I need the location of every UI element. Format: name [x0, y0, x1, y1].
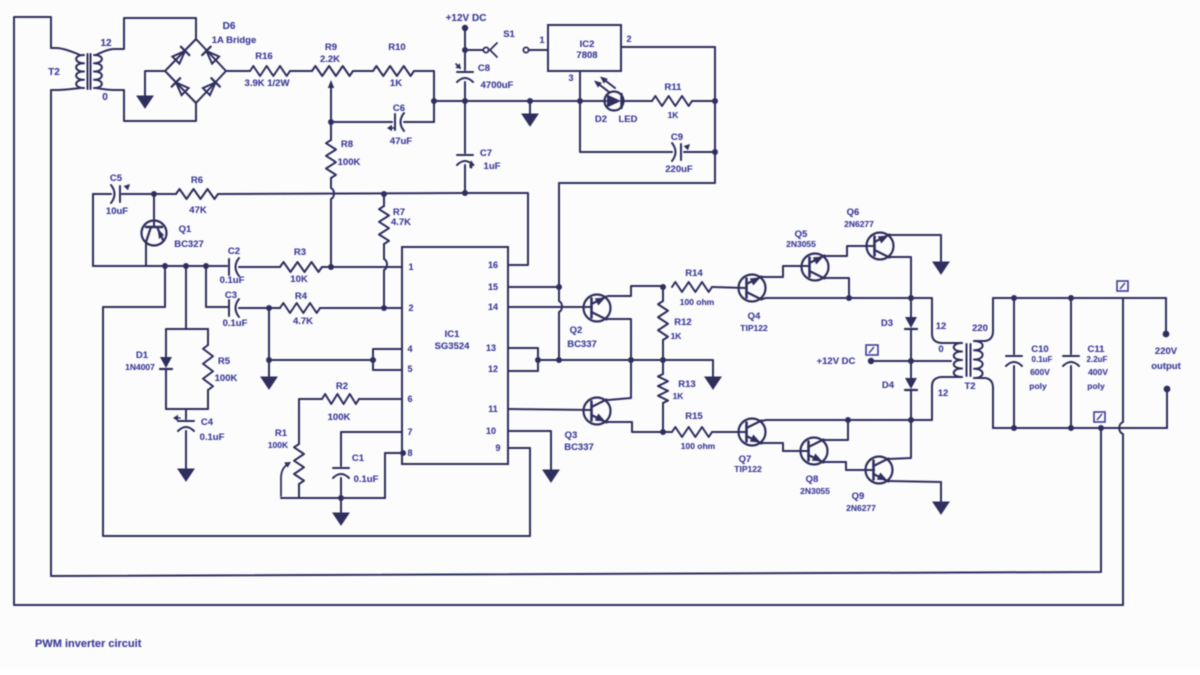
junction pin8: [400, 450, 406, 456]
svg-text:220V: 220V: [1155, 346, 1178, 357]
wire R16 to R9: [290, 70, 312, 72]
Q1 collector lead: [153, 194, 155, 227]
capacitor C10 upper lead: [1013, 298, 1015, 354]
svg-text:2N3055: 2N3055: [786, 239, 816, 249]
svg-text:13: 13: [486, 343, 496, 353]
resistor R1 (trimmer): [294, 444, 304, 484]
wire C3 to R4: [239, 307, 280, 309]
junction R11/pin2 column: [712, 98, 718, 104]
wire C4 to ground: [185, 431, 187, 469]
svg-text:4.7K: 4.7K: [391, 217, 411, 228]
wire bridge right vertex to R16: [226, 70, 250, 72]
junction C10 bottom: [1011, 425, 1017, 431]
resistor R10: [373, 66, 414, 76]
svg-text:0: 0: [938, 344, 943, 355]
svg-text:T2: T2: [964, 381, 975, 392]
220V lower terminal: [1164, 386, 1171, 393]
wire lower rail to T2 12 bottom tap: [932, 377, 962, 420]
svg-text:10K: 10K: [290, 274, 308, 285]
wire top rail to upper terminal: [1165, 298, 1167, 331]
bridge diamond D6 outline: [165, 39, 226, 103]
svg-text:Q8: Q8: [806, 474, 819, 485]
T2 right 220-side winding: [974, 341, 983, 378]
svg-text:R2: R2: [336, 381, 348, 392]
resistor R14: [672, 282, 712, 292]
R1 wiper: [281, 463, 289, 496]
svg-text:220: 220: [972, 323, 988, 334]
capacitor C7 plates: [457, 154, 473, 156]
junction ground stub: [527, 98, 533, 104]
svg-text:0: 0: [102, 92, 108, 103]
bridge diode top-left: [172, 51, 185, 64]
transistor Q1 circle: [142, 221, 167, 246]
svg-text:C9: C9: [671, 132, 683, 143]
junction pin3/ground rail: [577, 98, 583, 104]
bridge diode top-right: [206, 51, 219, 64]
svg-text:100K: 100K: [268, 440, 289, 450]
T2 right core: [966, 344, 968, 376]
wire to C4: [185, 409, 187, 419]
ground stub on rail: [529, 101, 531, 114]
diode D1: [160, 357, 172, 368]
wire R11 to pin2 column: [692, 100, 715, 102]
svg-text:1K: 1K: [673, 391, 685, 401]
junction ground node 269: [266, 357, 272, 363]
svg-text:0.1uF: 0.1uF: [1032, 355, 1053, 364]
wire C6 row right: [404, 121, 434, 123]
LED D2 emission arrows: [596, 82, 609, 92]
wire Q8 emitter to Q9 base: [823, 462, 874, 470]
svg-text:SG3524: SG3524: [435, 341, 471, 352]
ground arrow (rail): [522, 114, 538, 126]
capacitor C10 plates: [1006, 355, 1022, 357]
wire row498 up to pin8: [385, 453, 402, 498]
svg-text:TIP122: TIP122: [740, 323, 768, 333]
diode D4: [905, 378, 917, 389]
wire LED to R11: [622, 100, 652, 102]
wire C9 row left: [580, 101, 672, 152]
svg-text:220uF: 220uF: [665, 164, 693, 175]
svg-text:R12: R12: [674, 317, 691, 328]
resistor R2: [322, 394, 359, 404]
svg-text:R14: R14: [685, 268, 703, 279]
C8 polarity tick: [456, 64, 460, 68]
svg-text:poly: poly: [1029, 381, 1047, 391]
svg-text:Q4: Q4: [748, 311, 761, 322]
capacitor C5 plates: [119, 186, 121, 202]
bridge diode bottom-left: [176, 82, 189, 95]
svg-text:IC2: IC2: [580, 39, 595, 50]
capacitor C8 plates: [457, 71, 473, 73]
svg-text:C10: C10: [1031, 344, 1048, 355]
wire R13 bottom lead: [662, 403, 664, 432]
svg-text:D1: D1: [136, 350, 149, 361]
wire R3 to IC1 pin1: [322, 266, 402, 268]
wire Q2 emitter down to 360 row: [608, 319, 631, 360]
transistor Q5 2N3055: [802, 254, 829, 281]
svg-text:C1: C1: [352, 453, 365, 464]
wire R5 branch lower: [207, 390, 209, 409]
svg-text:R1: R1: [275, 428, 288, 439]
Q1 bar: [146, 226, 162, 229]
svg-text:D4: D4: [882, 380, 895, 391]
junction pins45: [370, 357, 376, 363]
svg-text:BC327: BC327: [174, 239, 204, 250]
ground arrow (Q6): [933, 262, 949, 274]
wire D4 to lower rail: [910, 391, 912, 420]
svg-text:400V: 400V: [1088, 367, 1108, 377]
svg-text:R9: R9: [325, 42, 337, 53]
resistor R3: [280, 262, 322, 272]
junction 360/631: [628, 357, 634, 363]
resistor R5: [203, 345, 213, 390]
ground arrow (C1): [333, 513, 349, 525]
svg-text:TIP122: TIP122: [734, 464, 762, 474]
switch S1 lever: [490, 43, 497, 57]
wire Q6 emitter down to rail: [889, 257, 911, 298]
resistor R6: [176, 189, 218, 199]
svg-text:2N6277: 2N6277: [846, 503, 876, 513]
wire ground rail y101: [434, 100, 606, 102]
ground arrow (pins 4/5): [261, 377, 277, 389]
ground arrow (360 row): [705, 377, 721, 389]
svg-text:+12V DC: +12V DC: [817, 356, 856, 367]
junction feedback column/360 wire: [556, 357, 562, 363]
svg-text:D2: D2: [595, 114, 607, 125]
svg-text:100 ohm: 100 ohm: [681, 441, 716, 451]
svg-text:100K: 100K: [215, 373, 238, 384]
svg-text:1: 1: [408, 262, 413, 272]
LED D2 circle: [605, 92, 624, 111]
junction D4/lower rail: [908, 417, 914, 423]
wire C5 left plate lead: [93, 193, 111, 195]
svg-text:2.2uF: 2.2uF: [1087, 355, 1108, 364]
wire Q3 emitter to R15 row: [608, 422, 672, 432]
svg-text:4.7K: 4.7K: [293, 316, 313, 327]
resistor R13: [658, 374, 668, 403]
wire D3 bus upper: [910, 298, 912, 317]
IC2 7808 body: [548, 25, 621, 71]
junction +12V/S1: [462, 47, 468, 53]
wire Q1 emitter down: [145, 243, 147, 266]
wire D3 to +12V node: [910, 330, 912, 361]
wire C3 branch: [206, 266, 228, 307]
wire R8 top lead: [330, 122, 332, 140]
IC1 SG3524 body: [402, 247, 508, 464]
svg-text:BC337: BC337: [567, 339, 597, 350]
svg-text:C3: C3: [225, 290, 237, 301]
wire bottom row y498: [281, 497, 385, 499]
svg-text:C5: C5: [110, 173, 123, 184]
wire D1/R5 top rail: [166, 328, 208, 330]
wire pin15 stub: [508, 286, 559, 288]
wire R13 top lead: [662, 360, 664, 374]
svg-text:10: 10: [486, 426, 496, 436]
svg-text:3: 3: [568, 73, 573, 83]
wire C6 row left: [331, 121, 392, 123]
LED D2 triangle and bar: [607, 95, 621, 108]
resistor R4: [280, 303, 320, 313]
svg-text:2N6277: 2N6277: [844, 219, 874, 229]
svg-text:0.1uF: 0.1uF: [220, 275, 245, 286]
junction pins 12/13: [535, 357, 541, 363]
junction Q8 collector/rail: [845, 417, 851, 423]
svg-text:47K: 47K: [189, 205, 207, 216]
wire Q9 collector up to rail: [888, 420, 911, 459]
svg-text:BC337: BC337: [564, 442, 594, 453]
wire pin7 to C1: [341, 432, 402, 466]
wire R2 to R1 top: [299, 399, 322, 444]
transistor Q2: [584, 295, 611, 322]
svg-text:C11: C11: [1088, 344, 1106, 355]
wire Q5 collector to Q6 base: [824, 246, 874, 256]
wire Q8 collector up to rail: [823, 420, 848, 440]
wire row 266: [93, 265, 227, 267]
junction C3-R4 node: [266, 305, 272, 311]
wire IC2 pin2 to C9 column down to pin15 column: [559, 47, 715, 360]
T2 right 12-side winding: [954, 343, 962, 377]
svg-text:R3: R3: [294, 247, 306, 258]
T2 left secondary winding: [94, 55, 102, 88]
svg-text:1: 1: [539, 35, 544, 45]
svg-text:R10: R10: [388, 42, 405, 53]
wire C7 bottom to 194 rail: [464, 165, 466, 193]
junction row266 x206: [203, 263, 209, 269]
svg-text:2N3055: 2N3055: [800, 486, 830, 496]
wire 220 winding bottom to bottom rail: [974, 378, 993, 428]
svg-text:8: 8: [407, 448, 412, 458]
junction pin15/feedback column: [556, 284, 562, 290]
resistor R12: [658, 301, 668, 340]
svg-text:C6: C6: [393, 103, 405, 114]
+12V DC terminal (mid): [868, 358, 874, 364]
svg-text:S1: S1: [503, 29, 515, 40]
transistor Q4 TIP122: [739, 275, 766, 302]
junction C1/ground row: [338, 495, 344, 501]
svg-text:16: 16: [488, 260, 498, 270]
wire pin10 to ground: [508, 431, 551, 470]
wire R14 to Q4 base: [712, 287, 746, 288]
wire R6 to R7 node to C7 node to pin16: [218, 193, 528, 265]
svg-text:R11: R11: [665, 82, 683, 93]
junction 360/R12R13: [660, 357, 666, 363]
wire C8 to C7: [464, 82, 466, 153]
resistor R8: [326, 140, 336, 178]
svg-text:6: 6: [407, 394, 412, 404]
C7 polarity tick: [469, 160, 475, 166]
C4 polarity tick: [175, 417, 180, 419]
wire R12 bottom lead: [662, 340, 664, 360]
C9 polarity tick: [684, 144, 690, 150]
220V upper terminal: [1163, 331, 1170, 338]
C5 polarity tick: [124, 184, 130, 190]
transistor Q6 2N6277: [867, 233, 894, 260]
junction C10 top: [1011, 295, 1017, 301]
capacitor C11 upper lead: [1070, 298, 1072, 354]
svg-text:Q6: Q6: [847, 207, 860, 218]
resistor R16: [250, 66, 290, 76]
ground arrow (pin10): [543, 470, 559, 482]
+12V DC terminal dot: [462, 25, 468, 31]
svg-text:12: 12: [936, 321, 947, 332]
wire Q3 collector up to 360 row: [608, 360, 631, 400]
ground arrow (C4): [178, 469, 194, 481]
diode D3: [905, 317, 917, 328]
Q1 left diagonal: [146, 227, 151, 242]
wire Q9 emitter to ground: [888, 481, 941, 502]
svg-text:12: 12: [100, 38, 112, 49]
capacitor C11 plates: [1063, 355, 1079, 357]
wire IC2 pin3 down to ground rail: [579, 71, 581, 101]
wire S1 to IC2 pin1: [529, 49, 548, 51]
svg-text:1K: 1K: [671, 331, 683, 341]
wire D1 branch lower: [165, 370, 167, 409]
svg-text:R15: R15: [685, 411, 703, 422]
svg-text:100K: 100K: [328, 412, 351, 423]
svg-text:5: 5: [407, 364, 412, 374]
svg-text:2: 2: [626, 34, 631, 44]
wire R7 top lead: [383, 194, 385, 206]
junction row266 x186: [183, 263, 189, 269]
svg-text:R13: R13: [678, 379, 695, 390]
wire Q7 emitter to Q8 base: [761, 443, 809, 451]
wire 360 row to ground stub: [663, 360, 713, 377]
wire Q4 collector to Q5 base: [761, 266, 809, 277]
wire R5 branch upper: [207, 329, 209, 345]
junction rail/D3 bus: [908, 295, 914, 301]
wire top rail y298: [993, 297, 1166, 299]
wire D4 upper: [910, 361, 912, 378]
wire D1/R5 top lead: [185, 266, 187, 329]
svg-text:1uF: 1uF: [484, 161, 501, 172]
wire R15 to Q7 base: [712, 431, 746, 433]
wire R4 to IC1 pin2: [320, 307, 402, 309]
svg-text:C2: C2: [228, 246, 240, 257]
capacitor C11 lower lead: [1070, 366, 1072, 428]
wire R8 lead down to pin1 row (hop over 194 rail): [331, 178, 334, 267]
Q1 right diagonal with arrow: [157, 227, 163, 240]
wire pins45 to ground node: [269, 359, 373, 361]
junction R10 node/ground rail: [431, 98, 437, 104]
svg-text:11: 11: [488, 404, 498, 414]
svg-text:100 ohm: 100 ohm: [680, 297, 715, 307]
junction R14/R12: [660, 284, 666, 290]
svg-text:10uF: 10uF: [106, 206, 128, 217]
wire bottom rail y428: [993, 427, 1167, 429]
wire C1 ground stub: [340, 498, 342, 513]
bridge diode bottom-right: [203, 82, 216, 95]
svg-text:600V: 600V: [1030, 367, 1050, 377]
svg-text:R5: R5: [218, 356, 231, 367]
junction C8/ground rail: [462, 98, 468, 104]
capacitor C2 plates: [228, 259, 230, 275]
svg-text:+12V DC: +12V DC: [446, 13, 487, 24]
svg-text:9: 9: [495, 443, 500, 453]
svg-text:0.1uF: 0.1uF: [223, 318, 248, 329]
svg-text:T2: T2: [48, 67, 60, 78]
junction C11 bottom: [1068, 425, 1074, 431]
transistor Q9 2N6277: [866, 457, 893, 484]
node flag b (top): [1117, 281, 1128, 291]
wire R12 top lead: [662, 287, 664, 301]
svg-text:output: output: [1151, 361, 1181, 372]
svg-text:12: 12: [488, 364, 498, 374]
wire R10 to corner down to C6 row: [414, 71, 434, 122]
junction +12V node: [908, 358, 914, 364]
wire T2 secondary top (12) to bridge top vertex: [96, 18, 196, 55]
wire C3 node down to ground node: [268, 308, 270, 360]
wire lower terminal stub: [1166, 392, 1168, 428]
svg-text:14: 14: [488, 302, 498, 312]
wire R9 wiper arm: [330, 88, 332, 122]
svg-text:Q1: Q1: [179, 224, 192, 235]
junction R7 bottom/pin2 row: [381, 305, 387, 311]
wire pin6 to R2: [359, 398, 402, 400]
wire D1 branch upper: [165, 329, 167, 357]
svg-text:15: 15: [488, 282, 498, 292]
transistor Q7 TIP122: [739, 419, 766, 446]
junction R13/R15 row: [660, 429, 666, 435]
capacitor C3 plates: [228, 300, 230, 316]
svg-text:47uF: 47uF: [390, 136, 412, 147]
switch S1 left contact: [483, 47, 488, 52]
wire pin13/12 join: [508, 348, 538, 371]
transistor Q8 2N3055: [801, 438, 828, 465]
wire Q5 emitter down to rail: [824, 278, 849, 298]
svg-text:R8: R8: [341, 139, 353, 150]
wire 220 winding top to top rail: [974, 298, 993, 341]
junction Q5 emitter/rail: [846, 295, 852, 301]
resistor R15: [672, 427, 712, 437]
wire T2 secondary bottom (0) to bridge bottom vertex: [96, 88, 196, 121]
svg-text:Q9: Q9: [852, 491, 865, 502]
wire C5 left stub down: [92, 194, 94, 266]
ground arrow (Q9): [933, 502, 949, 514]
wire rail to T2 12 top tap: [911, 298, 962, 343]
svg-text:D6: D6: [223, 21, 236, 32]
resistor R9 (trimmer): [312, 66, 353, 76]
svg-text:D3: D3: [881, 318, 893, 329]
svg-text:C7: C7: [480, 148, 492, 159]
T2 left primary winding: [76, 55, 84, 88]
svg-text:1K: 1K: [390, 78, 402, 89]
wire Q7 collector to rail y420: [762, 420, 932, 421]
wire D1/R5 bottom rail: [166, 408, 208, 410]
junction R9 wiper / C6 / R8: [328, 119, 334, 125]
wire 360 row: [538, 359, 663, 361]
svg-text:0.1uF: 0.1uF: [354, 474, 379, 485]
wire C2 to R3: [239, 266, 280, 268]
wire Q6 collector to ground: [889, 235, 941, 262]
wire C1 bottom: [340, 478, 342, 498]
capacitor C10 lower lead: [1013, 366, 1015, 428]
svg-text:poly: poly: [1087, 381, 1105, 391]
svg-text:3.9K 1/2W: 3.9K 1/2W: [245, 78, 290, 89]
wire +12V to switch S1: [465, 49, 483, 51]
junction row266 x165: [162, 263, 168, 269]
wire stub to ground: [268, 360, 270, 377]
svg-text:1K: 1K: [668, 110, 680, 120]
wire Q4 emitter to rail y298: [762, 298, 911, 299]
junction bottom rail/x1101: [1098, 425, 1104, 431]
svg-text:100K: 100K: [338, 157, 361, 168]
capacitor C6 plates: [394, 114, 396, 130]
junction C7/ref rail: [462, 190, 468, 196]
transistor Q3: [584, 398, 611, 425]
svg-text:C4: C4: [201, 417, 214, 428]
svg-text:Q2: Q2: [570, 325, 583, 336]
svg-text:1A Bridge: 1A Bridge: [212, 35, 257, 46]
